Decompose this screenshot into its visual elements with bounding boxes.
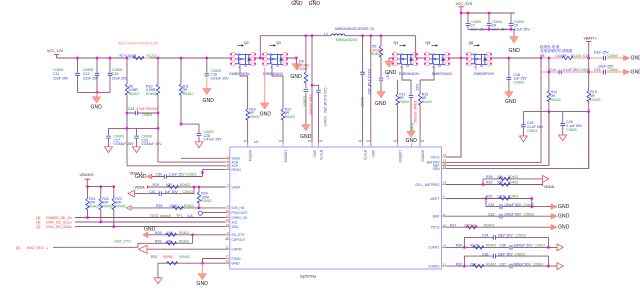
svg-text:R8: R8 — [540, 54, 545, 58]
svg-text:PGND: PGND — [232, 257, 242, 261]
resistor R15 — [587, 58, 601, 168]
svg-text:VBATT+: VBATT+ — [584, 37, 597, 41]
capacitor C10 — [583, 51, 618, 61]
resistor R19 — [153, 183, 191, 189]
svg-text:100K: 100K — [169, 204, 178, 208]
svg-text:GND: GND — [260, 111, 272, 117]
svg-text:R0402: R0402 — [484, 223, 494, 227]
svg-text:C11: C11 — [53, 72, 59, 76]
svg-text:30: 30 — [319, 139, 323, 143]
svg-text:CELL_BATPRES: CELL_BATPRES — [415, 183, 439, 187]
svg-text:C33: C33 — [488, 212, 494, 216]
wire Q6 gate stub — [475, 66, 477, 71]
capacitor C9 — [509, 13, 531, 32]
wire VDDA row — [148, 186, 230, 188]
IC pin stubs overlay left — [225, 158, 230, 263]
svg-text:15pF 50V: 15pF 50V — [498, 252, 514, 256]
IC top pin names rotated — [248, 150, 425, 163]
wire BATDRV row — [442, 58, 542, 162]
resistor R23 — [112, 187, 126, 227]
ground cap bank — [91, 92, 103, 110]
capacitor C15 — [594, 65, 618, 75]
svg-text:R26: R26 — [156, 204, 162, 208]
IC pin stubs overlay right — [442, 157, 447, 266]
wire EN_OTG row — [148, 234, 230, 236]
wire SW node top line — [260, 36, 415, 58]
svg-text:0.033uF 25V: 0.033uF 25V — [114, 142, 135, 146]
svg-text:C0603: C0603 — [186, 173, 196, 177]
svg-text:R20: R20 — [486, 181, 492, 185]
svg-text:[4]: [4] — [37, 221, 41, 225]
svg-text:0.033uF 25V: 0.033uF 25V — [142, 142, 163, 146]
svg-text:«: « — [70, 226, 72, 230]
wire VSYS row — [442, 58, 462, 157]
svg-text:25: 25 — [358, 139, 362, 143]
svg-text:充电流率的可 调电阻: 充电流率的可 调电阻 — [540, 48, 573, 53]
resistor R28 — [155, 231, 189, 237]
svg-text:R0402: R0402 — [249, 115, 259, 119]
svg-text:680pF 50V: 680pF 50V — [514, 262, 532, 266]
capacitor C24 — [126, 107, 160, 117]
svg-text:R0402: R0402 — [201, 199, 211, 203]
svg-text:33pF 50V: 33pF 50V — [498, 234, 514, 238]
resistor R18 — [486, 175, 518, 180]
wire PSYS row — [442, 226, 552, 228]
svg-text:C0603: C0603 — [608, 54, 618, 58]
capacitor C37 — [500, 262, 544, 268]
svg-text:10K: 10K — [497, 175, 504, 179]
svg-text:0.1uF 25V: 0.1uF 25V — [514, 28, 531, 32]
capacitor C28 branch — [180, 123, 223, 142]
resistor R17 gate — [272, 66, 295, 147]
svg-text:Q4: Q4 — [394, 41, 399, 45]
svg-text:R0402: R0402 — [102, 205, 112, 209]
ground snubber2 — [375, 92, 387, 107]
ground C23 — [406, 131, 418, 144]
svg-text:C15: C15 — [594, 68, 600, 72]
svg-text:0.01uF 25V: 0.01uF 25V — [211, 76, 230, 80]
resistor R30 — [456, 244, 497, 249]
ground C27 — [105, 147, 113, 153]
ground C18 — [505, 92, 517, 105]
svg-text:R0402: R0402 — [551, 98, 561, 102]
svg-text:C0603: C0603 — [142, 113, 152, 117]
svg-text:LODRV1: LODRV1 — [283, 150, 287, 163]
svg-text:R0402: R0402 — [422, 100, 432, 104]
svg-text:R0402: R0402 — [508, 175, 518, 179]
IC top pin numbers — [243, 139, 424, 143]
ground battery filter row — [624, 69, 640, 75]
svg-text:R0402: R0402 — [297, 67, 307, 71]
wire SRP row — [442, 112, 549, 166]
ground C26 — [559, 135, 567, 141]
capacitor C27 — [106, 128, 134, 146]
svg-text:CHARG_OK_H: CHARG_OK_H — [46, 216, 71, 220]
svg-text:U1: U1 — [254, 140, 259, 144]
IC left pin names — [232, 157, 249, 266]
ground C28 — [195, 142, 203, 148]
svg-text:C0603: C0603 — [535, 244, 545, 248]
svg-text:WSLP12060100FEA*1206: WSLP12060100FEA*1206 — [118, 41, 158, 45]
resistor R10 — [146, 58, 160, 113]
svg-text:VDDA: VDDA — [135, 185, 146, 189]
wire input rail — [57, 57, 233, 59]
port ILIM left — [127, 206, 132, 211]
svg-text:R0402: R0402 — [129, 92, 139, 96]
net flag CHARG_OK_H — [37, 216, 73, 220]
capacitor C20 snubber — [302, 90, 312, 125]
svg-text:LODRV2: LODRV2 — [398, 150, 402, 163]
svg-text:R31: R31 — [151, 255, 157, 259]
IC pin stubs overlay top — [248, 143, 421, 148]
ground snubber1 — [300, 125, 312, 140]
node dots input rail — [76, 57, 79, 60]
svg-text:10K: 10K — [167, 231, 174, 235]
capacitor C12 — [83, 58, 99, 92]
wire SW1 column — [311, 34, 314, 147]
svg-text:R27: R27 — [450, 223, 456, 227]
svg-text:150pF 25V/NC: 150pF 25V/NC — [413, 101, 417, 125]
svg-text:GND: GND — [558, 204, 570, 210]
capacitor C30 — [152, 171, 204, 179]
power flag VBATT+ — [584, 37, 597, 58]
ground R31 left — [154, 263, 162, 283]
svg-text:VDD3V3: VDD3V3 — [80, 173, 94, 177]
port R18 right — [543, 176, 549, 183]
wire REGN row — [203, 170, 230, 177]
port COMP2 — [557, 263, 563, 270]
transistor Q2 — [230, 41, 257, 76]
svg-text:C10: C10 — [583, 54, 589, 58]
port COMP1 — [557, 244, 563, 251]
capacitor C22 bootstrap phase2 — [360, 34, 371, 147]
ground battery rail — [624, 55, 640, 61]
svg-text:R1210: R1210 — [571, 54, 581, 58]
svg-text:HIDRV2: HIDRV2 — [420, 150, 424, 162]
svg-text:R29: R29 — [155, 240, 161, 244]
svg-text:GND: GND — [406, 138, 418, 144]
net flag ENZ_OTG — [16, 246, 48, 250]
ground Q4 left — [385, 61, 397, 76]
svg-text:0R/NC: 0R/NC — [163, 255, 174, 259]
resistor R8 shunt — [540, 54, 581, 60]
svg-text:R30: R30 — [456, 244, 462, 248]
svg-text:EMB09P03V: EMB09P03V — [474, 72, 495, 76]
svg-text:C31: C31 — [149, 190, 155, 194]
capacitor C29 — [134, 128, 162, 146]
ground Q3 right — [290, 64, 302, 80]
svg-text:GND: GND — [91, 105, 103, 111]
svg-text:SDA: SDA — [232, 225, 239, 229]
net flag CHG_I2C_SDA — [37, 225, 73, 229]
svg-text:20K: 20K — [497, 181, 504, 185]
svg-text:GND: GND — [631, 55, 640, 61]
ground VCC_SYS caps — [509, 37, 521, 54]
resistor R6 snubber — [296, 34, 310, 88]
svg-text:CHRG_OK: CHRG_OK — [232, 216, 249, 220]
wire SDA row — [75, 226, 230, 228]
svg-text:C30: C30 — [156, 173, 162, 177]
wire SCL row — [75, 221, 230, 223]
wire VCC_SYS cap rail top — [461, 12, 515, 14]
capacitor C35 — [500, 244, 545, 250]
svg-text:GND: GND — [375, 101, 387, 107]
svg-text:IADPT: IADPT — [430, 197, 439, 201]
capacitor C8 — [487, 13, 508, 32]
wire Q3 source down — [264, 68, 266, 104]
svg-text:VCC_12V: VCC_12V — [47, 49, 64, 53]
test point TP1 — [150, 211, 202, 218]
ground C25 — [519, 136, 527, 142]
wire Q4-Q5 link — [416, 57, 426, 59]
svg-text:R0402: R0402 — [486, 244, 496, 248]
svg-text:GND: GND — [203, 98, 215, 104]
wire VCC_SYS cap rail bottom — [468, 29, 515, 36]
svg-text:EN_OTG: EN_OTG — [232, 233, 246, 237]
wire phase2 gate row — [402, 66, 434, 80]
resistor R22 — [99, 187, 113, 222]
wire C27/C29 branch line — [109, 127, 159, 129]
svg-text:23: 23 — [367, 139, 371, 143]
IC right pin names — [415, 155, 440, 268]
svg-text:26: 26 — [393, 139, 397, 143]
svg-text:SRN: SRN — [433, 167, 440, 171]
capacitor C25 — [521, 112, 544, 136]
wire Q3 to ground — [286, 57, 298, 64]
svg-text:GND: GND — [197, 281, 209, 287]
svg-text:31: 31 — [243, 139, 247, 143]
svg-text:CHG_I2C_SDA: CHG_I2C_SDA — [46, 225, 71, 229]
inductor L1 — [324, 27, 375, 42]
svg-text:GND: GND — [558, 225, 570, 231]
svg-text:R28: R28 — [155, 231, 161, 235]
svg-text:C22 0.47uF 25V: C22 0.47uF 25V — [367, 69, 371, 95]
svg-text:GND: GND — [144, 226, 156, 232]
svg-text:C12: C12 — [83, 72, 89, 76]
ground C30 — [135, 174, 152, 180]
wire sense lines down — [127, 113, 158, 166]
power flag VDD3V3 — [80, 173, 94, 186]
svg-text:PROCHOT: PROCHOT — [232, 211, 248, 215]
capacitor C26 — [560, 112, 583, 135]
IC left pin numbers — [226, 155, 230, 264]
svg-text:EMB07N03V: EMB07N03V — [432, 72, 453, 76]
wire COMP1 row — [442, 246, 558, 248]
resistor R14 — [547, 58, 561, 165]
svg-text:L1: L1 — [324, 32, 328, 36]
power flag VDDA right — [543, 183, 555, 189]
power flag VCC_SYS — [456, 2, 473, 157]
wire ILIM_HIZ row — [131, 207, 230, 209]
svg-text:C34: C34 — [482, 234, 488, 238]
svg-text:C24: C24 — [128, 107, 134, 111]
resistor R7 shunt — [120, 54, 157, 60]
wire CHRG_OK row — [75, 217, 230, 219]
svg-text:R0402: R0402 — [180, 183, 190, 187]
ground Q3 source — [260, 103, 272, 117]
svg-text:REGN: REGN — [232, 168, 242, 172]
resistor R20 — [486, 181, 518, 187]
svg-text:R18: R18 — [486, 175, 492, 179]
svg-text:COMP1: COMP1 — [428, 246, 440, 250]
svg-text:R0402: R0402 — [486, 262, 496, 266]
svg-text:ENZ_OTG: ENZ_OTG — [27, 246, 44, 250]
svg-text:0.47uF 25V: 0.47uF 25V — [204, 138, 223, 142]
svg-text:VCC_SYS: VCC_SYS — [456, 2, 473, 6]
capacitor C23 — [409, 80, 419, 133]
capacitor C13 — [108, 58, 128, 92]
wire CMPIN row — [147, 248, 230, 250]
op-amp U1 bq25703a IC body — [230, 140, 442, 278]
svg-text:GND: GND — [385, 70, 397, 76]
svg-text:C37: C37 — [500, 262, 506, 266]
svg-text:CMPIN: CMPIN — [232, 248, 243, 252]
svg-text:R32: R32 — [456, 262, 462, 266]
wire ENZ_OTG row — [53, 246, 138, 248]
svg-text:bq25703a: bq25703a — [300, 274, 316, 278]
svg-text:32: 32 — [308, 139, 312, 143]
svg-text:10R: 10R — [166, 183, 173, 187]
svg-text:R0402: R0402 — [115, 205, 125, 209]
svg-text:C0603: C0603 — [524, 212, 534, 216]
ground top stub right — [309, 0, 321, 7]
svg-text:100pF 50V: 100pF 50V — [504, 203, 522, 207]
IC left pin stubs — [225, 158, 230, 263]
svg-text:R0402: R0402 — [184, 204, 194, 208]
resistor R21 — [86, 187, 100, 218]
svg-text:SW1: SW1 — [312, 150, 316, 157]
IC right pin numbers — [443, 153, 447, 266]
svg-text:C0603: C0603 — [302, 96, 306, 106]
wire ePAD row — [158, 262, 230, 264]
IC right pin stubs — [442, 157, 447, 266]
svg-text:R0402: R0402 — [590, 98, 600, 102]
svg-text:»: » — [46, 247, 48, 251]
wire battery rail — [490, 57, 541, 59]
svg-text:R0402: R0402 — [180, 255, 190, 259]
resistor R5 snubber2 — [370, 34, 384, 77]
resistor R11 — [179, 58, 193, 124]
ground IADPT filter — [551, 204, 570, 210]
svg-text:R0402: R0402 — [179, 231, 189, 235]
wire Q4 left to ground — [389, 58, 394, 61]
svg-text:0.1uF 25V: 0.1uF 25V — [563, 68, 580, 72]
capacitor C34 bridge — [464, 234, 548, 248]
svg-text:1800pF 50V: 1800pF 50V — [514, 244, 534, 248]
wire Q5-Q6 link — [448, 57, 468, 59]
svg-text:22uF 25V: 22uF 25V — [83, 77, 99, 81]
svg-text:GND: GND — [290, 74, 302, 80]
svg-text:CHG_I2C_SCL: CHG_I2C_SCL — [46, 221, 70, 225]
svg-text:C36: C36 — [482, 252, 488, 256]
ground C29 — [133, 147, 141, 153]
wire Q2-Q3 link — [254, 57, 264, 59]
IC top pin stubs — [248, 143, 421, 148]
resistor R32 — [456, 262, 497, 268]
svg-text:C35: C35 — [500, 244, 506, 248]
annotation chinese — [540, 44, 573, 53]
wire PROCHOT row — [202, 212, 229, 214]
svg-text:C0603: C0603 — [514, 80, 524, 84]
svg-text:ENZ_OTG: ENZ_OTG — [115, 240, 132, 244]
power flag VCC_12V — [47, 49, 64, 58]
svg-text:GND: GND — [631, 69, 640, 75]
svg-text:C0603: C0603 — [524, 203, 534, 207]
svg-text:R0402: R0402 — [183, 92, 193, 96]
svg-text:R25: R25 — [486, 195, 492, 199]
svg-text:1uF 35V: 1uF 35V — [165, 190, 179, 194]
resistor R12 gate — [396, 80, 410, 147]
wire R18 row — [483, 179, 543, 185]
wire COMP2 row — [442, 265, 558, 267]
svg-text:C0603: C0603 — [183, 190, 193, 194]
wire sense filter line — [523, 111, 588, 113]
capacitor C18 — [507, 58, 528, 92]
svg-text:2.2uF 25V: 2.2uF 25V — [169, 173, 186, 177]
capacitor C7 — [466, 13, 487, 32]
svg-text:EMB04N03V: EMB04N03V — [263, 72, 284, 76]
ground PSYS — [551, 224, 570, 230]
resistor R27 — [450, 223, 494, 229]
wire PGND row — [203, 259, 230, 264]
power flag VDDA upper — [130, 172, 142, 176]
svg-text:22uF 25V: 22uF 25V — [53, 77, 69, 81]
svg-text:VDDA: VDDA — [232, 185, 242, 189]
svg-text:0.045R: 0.045R — [556, 54, 568, 58]
capacitor C14 — [550, 68, 590, 74]
resistor R24 — [197, 187, 211, 208]
svg-text:[4]: [4] — [37, 216, 41, 220]
svg-text:GND: GND — [309, 1, 321, 7]
svg-text:R0402: R0402 — [89, 205, 99, 209]
port C31 left — [128, 190, 135, 197]
wire ACP row — [127, 165, 230, 167]
svg-text:MWSA0624S: MWSA0624S — [336, 38, 358, 42]
svg-text:GND: GND — [291, 1, 303, 7]
capacitor C31 — [135, 187, 195, 196]
resistor R25 — [486, 195, 518, 201]
node SW1 junction — [259, 36, 262, 60]
wire ACN row — [158, 161, 230, 163]
svg-text:Q2: Q2 — [244, 41, 249, 45]
svg-text:C14: C14 — [550, 68, 556, 72]
ground top stub left — [291, 0, 303, 7]
svg-text:4.7uF 25V/NC: 4.7uF 25V/NC — [136, 107, 159, 111]
svg-text:PSYS: PSYS — [431, 226, 440, 230]
svg-text:100pF 50V: 100pF 50V — [504, 212, 522, 216]
ground ePAD — [197, 263, 209, 287]
svg-text:R7 0.045R: R7 0.045R — [120, 54, 137, 58]
transistor Q5 — [424, 41, 453, 76]
svg-text:R0402: R0402 — [285, 115, 295, 119]
capacitor C21 bootstrap — [312, 85, 327, 147]
transistor Q4 — [392, 41, 420, 76]
svg-text:C0603: C0603 — [533, 262, 543, 266]
capacitor C33 — [488, 212, 534, 218]
port CMPIN — [139, 245, 148, 253]
svg-text:Q3: Q3 — [276, 41, 281, 45]
svg-text:R0402: R0402 — [508, 181, 518, 185]
node VCC_SYS tap — [460, 57, 463, 60]
power flag VDDA left — [135, 185, 148, 189]
wire cap bank bottom rail — [78, 91, 111, 93]
svg-text:R1210: R1210 — [147, 54, 157, 58]
svg-text:22uF 25V: 22uF 25V — [112, 77, 128, 81]
svg-text:C13: C13 — [112, 72, 118, 76]
capacitor C36 bridge — [464, 252, 548, 266]
svg-text:0R: 0R — [167, 240, 172, 244]
svg-text:C0603: C0603 — [323, 116, 327, 126]
